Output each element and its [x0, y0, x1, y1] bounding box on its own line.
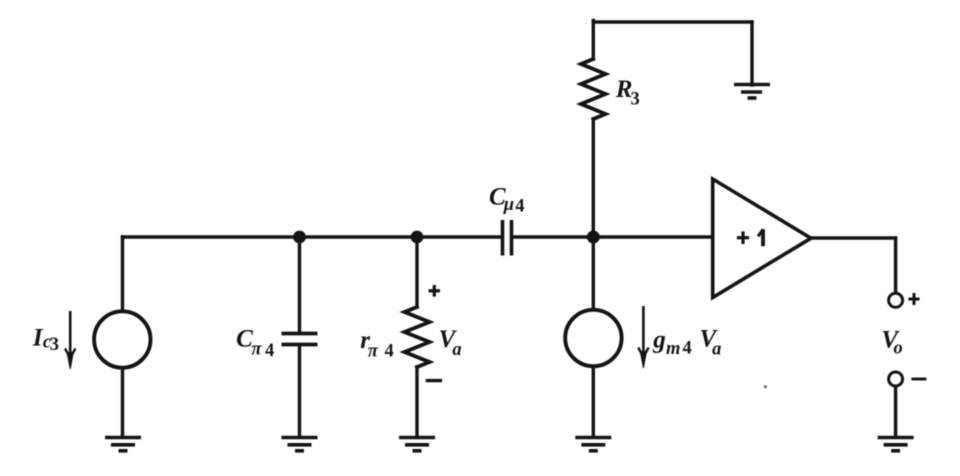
svg-text:μ: μ: [503, 195, 514, 215]
svg-text:3: 3: [50, 335, 59, 355]
svg-text:π: π: [368, 341, 379, 361]
svg-text:o: o: [894, 339, 903, 359]
svg-text:m: m: [666, 339, 680, 359]
svg-text:4: 4: [683, 339, 692, 359]
svg-text:4: 4: [265, 341, 274, 361]
svg-text:π: π: [251, 340, 262, 360]
svg-text:4: 4: [385, 342, 394, 362]
svg-text:a: a: [712, 340, 721, 360]
svg-text:3: 3: [631, 90, 640, 110]
svg-text:a: a: [452, 340, 461, 360]
svg-text:g: g: [652, 326, 666, 353]
svg-text:4: 4: [515, 196, 524, 216]
